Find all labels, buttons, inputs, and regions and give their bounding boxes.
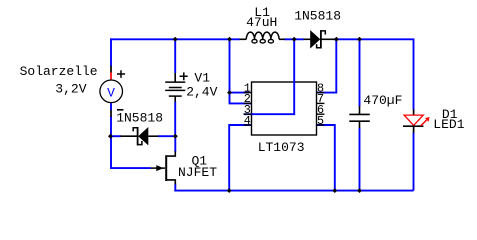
wire capacitor bottom lead: [359, 128, 361, 191]
battery V1: plate long lower: [165, 89, 185, 91]
node pin 1 junction: [227, 90, 232, 95]
battery V1: bottom lead: [174, 96, 176, 102]
schottky diode 1N5818 bottom: right anode lead: [148, 135, 158, 137]
wire top rail left segment: [110, 38, 240, 40]
LED D1: top lead: [413, 109, 415, 115]
node pin 4 on bottom rail: [227, 188, 232, 193]
schottky diode 1N5818 bottom: cathode lead: [121, 135, 138, 137]
svg-text:LED1: LED1: [433, 117, 464, 132]
wire battery V1 bottom to diode node: [174, 101, 176, 136]
svg-text:2,4V: 2,4V: [186, 85, 217, 100]
solar cell source V: red pin segment top: [110, 72, 112, 79]
svg-text:4: 4: [244, 114, 251, 128]
schottky diode 1N5818 bottom: top hook: [133, 128, 137, 132]
wire battery V1 top lead: [174, 38, 176, 73]
battery V1: plate long top: [165, 81, 185, 83]
node bottom diode right: [173, 134, 178, 139]
IC U1 pin 7 stub: [317, 102, 325, 104]
wire pin 8 up to output rail: [317, 39, 337, 93]
IC U1 LT1073 body: [252, 82, 317, 135]
transistor Q1: source bend: [167, 180, 175, 184]
schottky diode 1N5818 top: top hook: [321, 31, 325, 35]
schottky diode 1N5818 top: cathode bar: [320, 30, 322, 48]
IC U1 pin 4 stub: [244, 124, 252, 126]
IC U1 pin 3 stub: [244, 113, 252, 115]
solar cell source V: black pin segment bottom: [110, 110, 112, 117]
svg-text:Solarzelle: Solarzelle: [20, 64, 98, 79]
inductor L1: coil: [246, 32, 279, 39]
LED D1: light arrow: [421, 120, 427, 126]
transistor Q1: gate lead with arrow: [151, 167, 165, 169]
IC U1 pin 8 stub: [317, 92, 325, 94]
schottky diode 1N5818 top: cathode lead: [322, 38, 335, 40]
solar cell minus sign: [117, 109, 123, 111]
wire node A down to gate corner and to gate: [111, 116, 151, 168]
wire pin 1 tap: [230, 92, 250, 94]
svg-text:3,2V: 3,2V: [55, 82, 86, 97]
transistor Q1 NJFET: channel bar: [165, 155, 167, 181]
battery plus sign: [180, 72, 188, 80]
inductor L1: right lead: [279, 38, 285, 40]
wire SW branch from top rail over IC to pin 3: [244, 38, 295, 114]
battery V1: plate short: [169, 87, 182, 89]
battery V1: plate short bottom: [169, 95, 182, 97]
wire LED bottom lead: [413, 132, 415, 190]
wire solar cell bottom to node A: [110, 103, 112, 110]
wire bottom rail: [174, 190, 413, 192]
node SW branch on top rail: [292, 37, 297, 42]
transistor Q1: drain bend: [167, 151, 175, 156]
IC U1 pin 2 stub: [244, 102, 252, 104]
wire diode node down to Q1 drain: [174, 136, 176, 152]
LED D1: cathode bar: [403, 125, 423, 127]
node bottom diode left: [108, 134, 113, 139]
wire capacitor top lead: [359, 38, 361, 106]
wire bottom diode left lead: [111, 135, 122, 137]
capacitor C1: bottom plate: [349, 120, 370, 122]
schottky diode 1N5818 bottom: bottom hook: [138, 141, 142, 145]
svg-text:47uH: 47uH: [246, 15, 277, 30]
solar cell source V 3,2V: black pin segment: [110, 66, 112, 73]
svg-text:NJFET: NJFET: [178, 165, 217, 180]
schottky diode 1N5818 top: triangle: [310, 30, 320, 48]
node capacitor on bottom rail: [357, 188, 362, 193]
LED D1: triangle outline red: [404, 115, 423, 125]
node capacitor branch on top rail: [357, 37, 362, 42]
LED D1: bottom lead: [413, 126, 415, 133]
wire solar cell top lead: [110, 38, 112, 66]
svg-text:V1: V1: [194, 70, 210, 85]
svg-text:V: V: [107, 85, 115, 100]
node pin8 branch on top rail: [334, 37, 339, 42]
schottky diode 1N5818 bottom: cathode bar: [137, 127, 139, 145]
wire pin 5 down to bottom rail: [317, 125, 335, 190]
wire top rail between L1 and 1N5818: [284, 38, 304, 40]
svg-text:470µF: 470µF: [363, 93, 402, 108]
capacitor C1: top plate: [349, 113, 370, 115]
schottky diode 1N5818 top: anode lead: [303, 38, 310, 40]
node VIN branch on top rail: [227, 37, 232, 42]
wire top rail right segment to LED branch: [334, 39, 414, 109]
node pin 5 on bottom rail: [332, 188, 337, 193]
svg-text:5: 5: [317, 114, 324, 128]
battery V1 2,4V: top lead: [174, 73, 176, 82]
svg-text:LT1073: LT1073: [258, 140, 305, 155]
wire bottom diode right lead: [158, 135, 176, 137]
IC U1 pin 5 stub: [317, 124, 325, 126]
wire Q1 source to bottom rail: [174, 184, 176, 191]
schottky diode 1N5818 bottom: triangle: [138, 127, 148, 145]
node battery tap on top rail: [173, 37, 178, 42]
IC U1 pin 6 stub: [317, 113, 325, 115]
capacitor C1: bottom lead: [359, 121, 361, 128]
solar cell source V: circle body: [100, 80, 123, 103]
svg-text:1N5818: 1N5818: [116, 111, 163, 126]
IC U1 pin 1 stub: [244, 92, 252, 94]
wire pin 4 to bottom rail: [229, 125, 251, 190]
capacitor C1 470uF: top lead: [359, 106, 361, 114]
wire VIN branch from top rail to pin 2: [230, 38, 252, 103]
schottky diode 1N5818 top: bottom hook: [317, 44, 321, 48]
solar cell plus sign: [117, 70, 125, 78]
inductor L1 47uH: left lead: [240, 38, 247, 40]
svg-text:1N5818: 1N5818: [294, 9, 341, 24]
